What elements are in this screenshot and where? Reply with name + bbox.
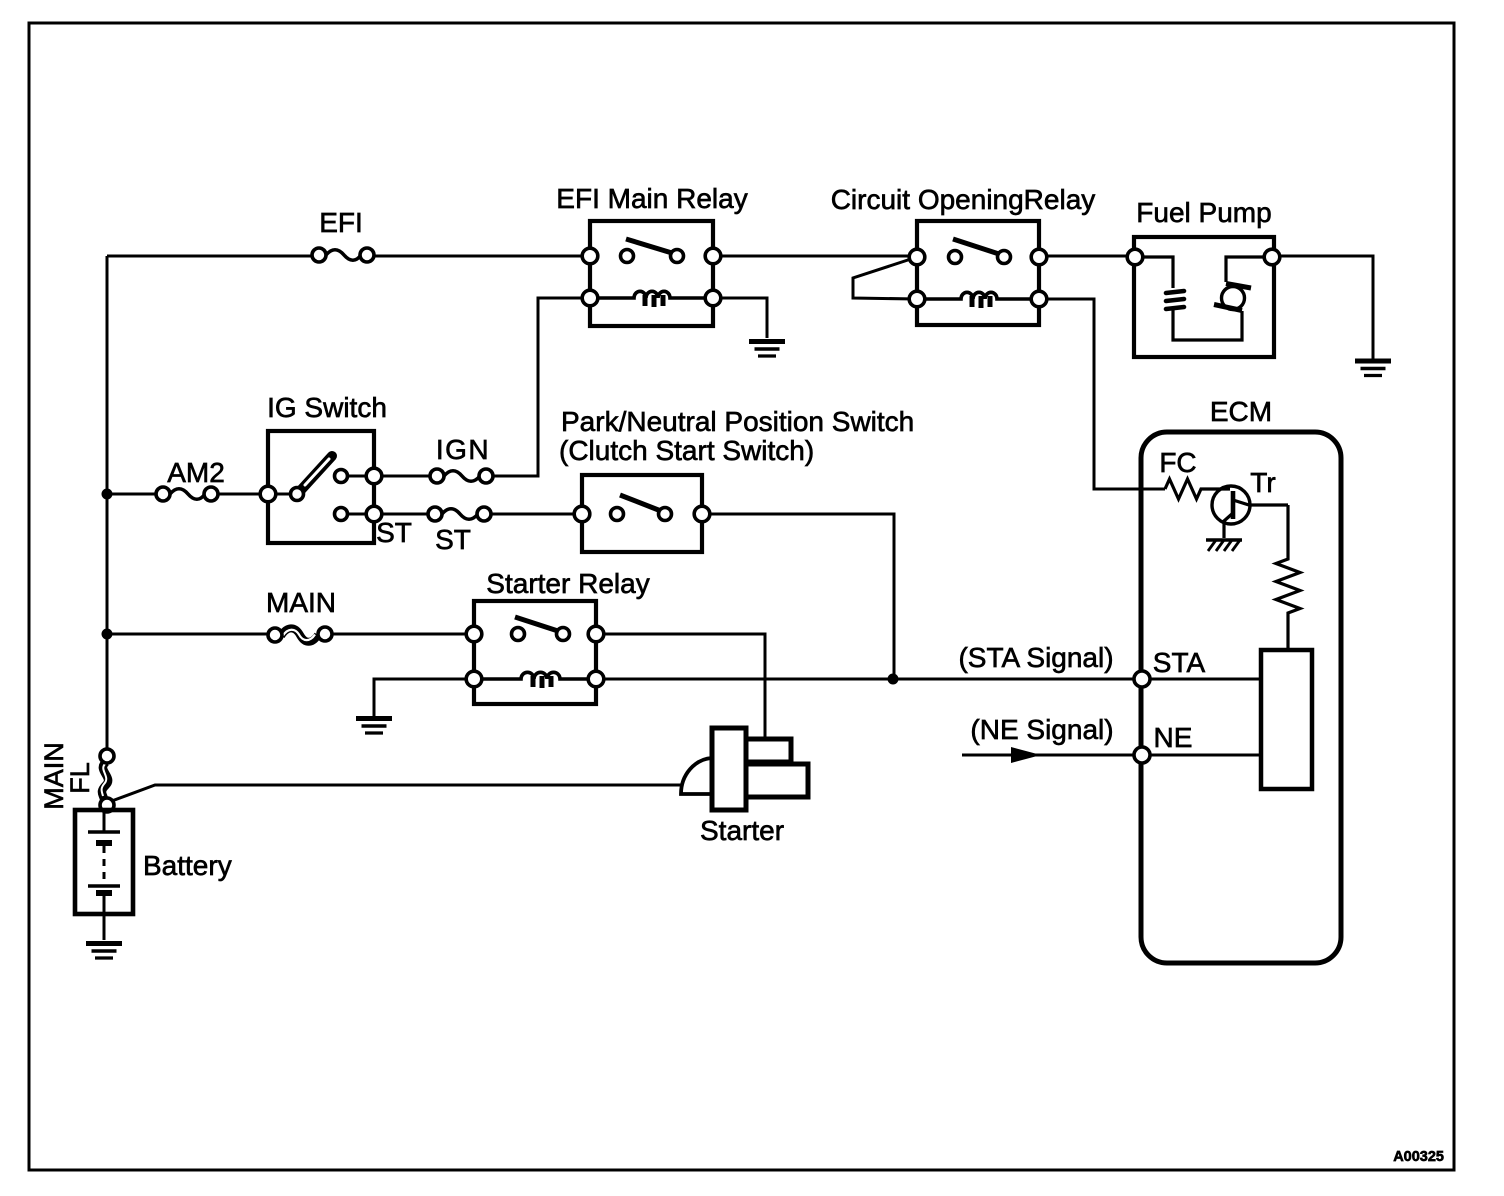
svg-text:EFI: EFI bbox=[319, 207, 363, 238]
svg-text:NE: NE bbox=[1154, 722, 1193, 753]
svg-text:EFI Main Relay: EFI Main Relay bbox=[556, 183, 747, 214]
svg-text:Fuel Pump: Fuel Pump bbox=[1136, 197, 1271, 228]
svg-text:Circuit OpeningRelay: Circuit OpeningRelay bbox=[831, 184, 1096, 215]
svg-text:Park/Neutral Position Switch: Park/Neutral Position Switch bbox=[561, 406, 914, 437]
svg-text:FL: FL bbox=[65, 762, 95, 794]
svg-text:Tr: Tr bbox=[1250, 467, 1275, 498]
svg-text:STA: STA bbox=[1153, 647, 1206, 678]
svg-text:FC: FC bbox=[1159, 447, 1196, 478]
svg-text:(Clutch Start Switch): (Clutch Start Switch) bbox=[559, 435, 814, 466]
svg-text:Starter Relay: Starter Relay bbox=[486, 568, 649, 599]
svg-text:Battery: Battery bbox=[143, 850, 232, 881]
svg-text:ST: ST bbox=[435, 524, 471, 555]
svg-text:ST: ST bbox=[376, 517, 412, 548]
svg-text:IGN: IGN bbox=[436, 434, 490, 465]
svg-text:(STA Signal): (STA Signal) bbox=[958, 642, 1113, 673]
svg-text:(NE Signal): (NE Signal) bbox=[970, 714, 1113, 745]
svg-text:Starter: Starter bbox=[700, 815, 784, 846]
svg-text:AM2: AM2 bbox=[167, 457, 225, 488]
svg-text:ECM: ECM bbox=[1210, 396, 1272, 427]
svg-text:A00325: A00325 bbox=[1393, 1149, 1444, 1165]
svg-text:IG Switch: IG Switch bbox=[267, 392, 387, 423]
svg-text:MAIN: MAIN bbox=[266, 587, 336, 618]
